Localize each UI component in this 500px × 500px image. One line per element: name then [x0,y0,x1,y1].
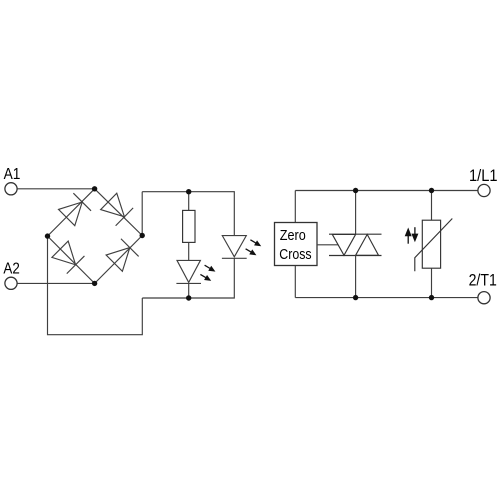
bridge edge L-B [48,236,95,283]
bridge edge L-T [48,189,95,236]
LED D2 emission arrows [249,237,263,248]
terminal 2/T1 [478,292,490,304]
svg-text:1/L1: 1/L1 [469,166,498,185]
wire resistor to LED1 [188,242,190,260]
junction dot bridge right [140,233,145,238]
varistor RV1 [422,220,440,268]
wire triac branch top [355,191,357,235]
wire bridge left corner down [48,236,143,335]
terminal 1/L1 [478,184,490,196]
wire output bottom rail [295,297,477,299]
wire gate from zero-cross to triac [317,244,339,246]
wire bridge right corner up [141,192,143,236]
junction dot bridge bottom [92,281,97,286]
svg-text:2/T1: 2/T1 [469,270,497,289]
junction dot bridge left [45,233,50,238]
wire varistor branch bottom [431,268,433,297]
junction dot LED1 bottom [186,295,191,300]
wire zero-cross top [294,191,296,223]
junction dot varistor bottom [429,295,434,300]
LED D2 [222,236,247,259]
LED D1 [176,260,201,283]
wire bottom rail left circuit [142,258,234,298]
zero cross box U1 [275,223,318,266]
wire output top rail [295,190,477,192]
diode V1 (top-left, L to T) [58,193,91,226]
varistor diagonal [415,219,453,272]
svg-text:Zero: Zero [280,227,306,244]
diode V2 (top-right, T to R) [100,192,133,225]
terminal A1 [5,183,17,195]
bridge edge B-R [95,236,143,284]
junction dot bridge top [92,186,97,191]
resistor R1 [183,210,195,242]
junction dot triac bottom [353,295,358,300]
svg-text:Cross: Cross [279,246,311,263]
diode V3 (bottom-left, L to B) [51,240,84,273]
wire LED1 to bottom rail [188,283,190,298]
wire A1 to bridge top [17,188,94,190]
svg-text:A2: A2 [3,260,19,277]
wire A2 to bridge bottom [17,282,94,284]
wire top rail left circuit [142,192,234,236]
triac V5 [329,234,382,255]
svg-text:A1: A1 [4,166,21,183]
junction dot triac top [353,188,358,193]
LED D1 emission arrows [203,263,217,274]
wire varistor branch top [431,191,433,221]
diode V4 (bottom-right, B to R) [105,239,138,272]
varistor bidirectional arrows [405,227,419,244]
wire triac branch bottom [355,256,357,298]
wire zero-cross bottom [294,266,296,298]
bridge edge T-R [95,189,143,236]
junction dot varistor top [429,188,434,193]
wire resistor branch top [188,192,190,211]
junction dot resistor top [186,189,191,194]
terminal A2 [5,277,17,289]
